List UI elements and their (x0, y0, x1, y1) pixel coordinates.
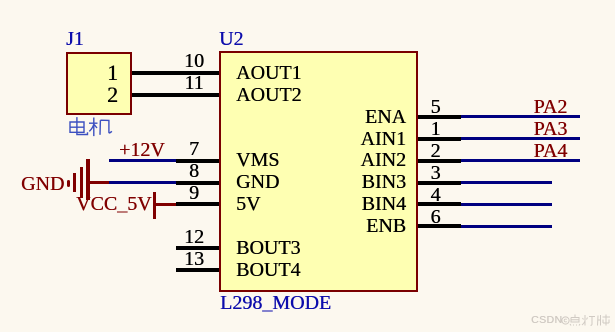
GND label (21, 174, 64, 194)
pin 4 stub (418, 202, 461, 206)
U2 part name L298_MODE (220, 293, 331, 313)
net label VCC_5V (76, 194, 152, 214)
pin 7 stub (176, 159, 219, 163)
watermark logo circle (561, 316, 570, 325)
net label PA2 (534, 97, 568, 117)
pin 3 stub (418, 181, 461, 185)
J1 pin 2 number (93, 84, 133, 106)
pin name ENB (306, 216, 406, 236)
pin name ENA (306, 107, 406, 127)
connector J1 body (66, 52, 132, 115)
pin number 12 (172, 227, 216, 247)
pin number 3 (414, 163, 458, 183)
pin number 10 (172, 51, 216, 71)
pin number 9 (172, 183, 216, 203)
GND wire blue (109, 181, 176, 184)
pin number 13 (172, 249, 216, 269)
pin name BIN3 (306, 172, 406, 192)
pin number 2 (414, 141, 458, 161)
pin name AIN2 (306, 150, 406, 170)
wire ENB (461, 225, 552, 228)
wire BIN3 (461, 181, 552, 184)
net label PA3 (534, 119, 568, 139)
VCC_5V power bar (153, 192, 157, 219)
pin name BIN4 (306, 194, 406, 214)
pin name 5V (236, 194, 260, 214)
pin number 11 (172, 73, 216, 93)
J1 comment 电机 (66, 116, 113, 138)
designator U2 (219, 29, 243, 49)
wire J1.2 to U2 pin11 (132, 93, 219, 97)
pin name AIN1 (306, 129, 406, 149)
watermark CSDN (531, 315, 562, 326)
wire ENA to PA2 (461, 115, 580, 118)
pin 1 stub (418, 137, 461, 141)
pin 8 stub (176, 181, 219, 185)
pin name GND (236, 172, 279, 192)
pin number 1 (414, 119, 458, 139)
wire AIN1 to PA3 (461, 137, 580, 140)
J1 pin 1 number (93, 62, 133, 84)
net label PA4 (534, 141, 568, 161)
watermark CJK 点灯师 (569, 314, 611, 326)
pin 13 stub (176, 268, 219, 272)
pin 6 stub (418, 224, 461, 228)
pin name BOUT3 (236, 238, 300, 258)
pin number 7 (172, 139, 216, 159)
pin 5 stub (418, 115, 461, 119)
pin name VMS (236, 150, 279, 170)
pin name AOUT1 (236, 63, 302, 83)
pin 12 stub (176, 246, 219, 250)
wire BIN4 (461, 203, 552, 206)
VCC_5V line (156, 203, 176, 206)
net label +12V (119, 140, 165, 160)
designator J1 (66, 29, 84, 49)
pin number 6 (414, 207, 458, 227)
pin number 4 (414, 185, 458, 205)
pin name BOUT4 (236, 260, 300, 280)
pin number 5 (414, 97, 458, 117)
wire J1.1 to U2 pin10 (132, 71, 219, 75)
IC U2 body (219, 51, 418, 292)
pin number 8 (172, 161, 216, 181)
power ground symbol (90, 181, 109, 184)
pin 2 stub (418, 159, 461, 163)
+12V wire (109, 159, 176, 162)
pin 9 stub (176, 202, 219, 206)
pin name AOUT2 (236, 85, 302, 105)
wire AIN2 to PA4 (461, 159, 580, 162)
